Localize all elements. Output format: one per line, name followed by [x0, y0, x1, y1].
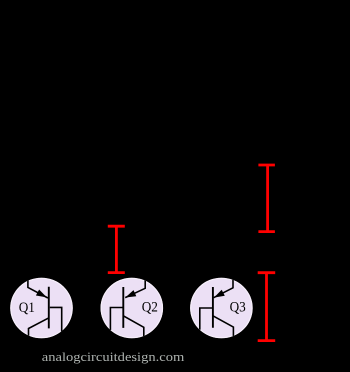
- base lead Q2: [110, 308, 123, 331]
- transistor Q1 (PNP, diode-connected, bar on right): [10, 276, 73, 339]
- emitter wire Q3: [214, 276, 233, 298]
- dimension marker 3 (lower right, red I-beam): [258, 273, 276, 341]
- transistor Q2 (PNP, bar on left): [101, 276, 164, 338]
- svg-text:Q3: Q3: [230, 300, 246, 316]
- base bar Q3: [212, 287, 214, 328]
- collector wire Q2: [123, 316, 144, 337]
- dimension marker 2 (middle, above Q2, red I-beam): [108, 226, 125, 272]
- svg-text:analogcircuitdesign.com: analogcircuitdesign.com: [42, 349, 185, 364]
- emitter wire Q2: [125, 276, 145, 298]
- emitter arrow Q1: [36, 290, 47, 298]
- base bar Q2: [122, 287, 124, 328]
- emitter arrow Q2: [125, 290, 136, 297]
- base bar Q1: [48, 287, 50, 329]
- emitter wire Q1: [28, 276, 48, 298]
- collector wire Q1: [29, 318, 49, 339]
- collector wire Q3: [213, 316, 234, 337]
- svg-text:Q1: Q1: [19, 300, 35, 316]
- emitter arrow Q3: [214, 290, 225, 298]
- dimension marker 1 (upper right, red I-beam): [258, 165, 275, 232]
- svg-text:Q2: Q2: [142, 300, 158, 316]
- base-collector tie Q1: [50, 307, 62, 334]
- base lead Q3: [200, 308, 213, 330]
- transistor Q3 (PNP, bar on left): [190, 276, 253, 338]
